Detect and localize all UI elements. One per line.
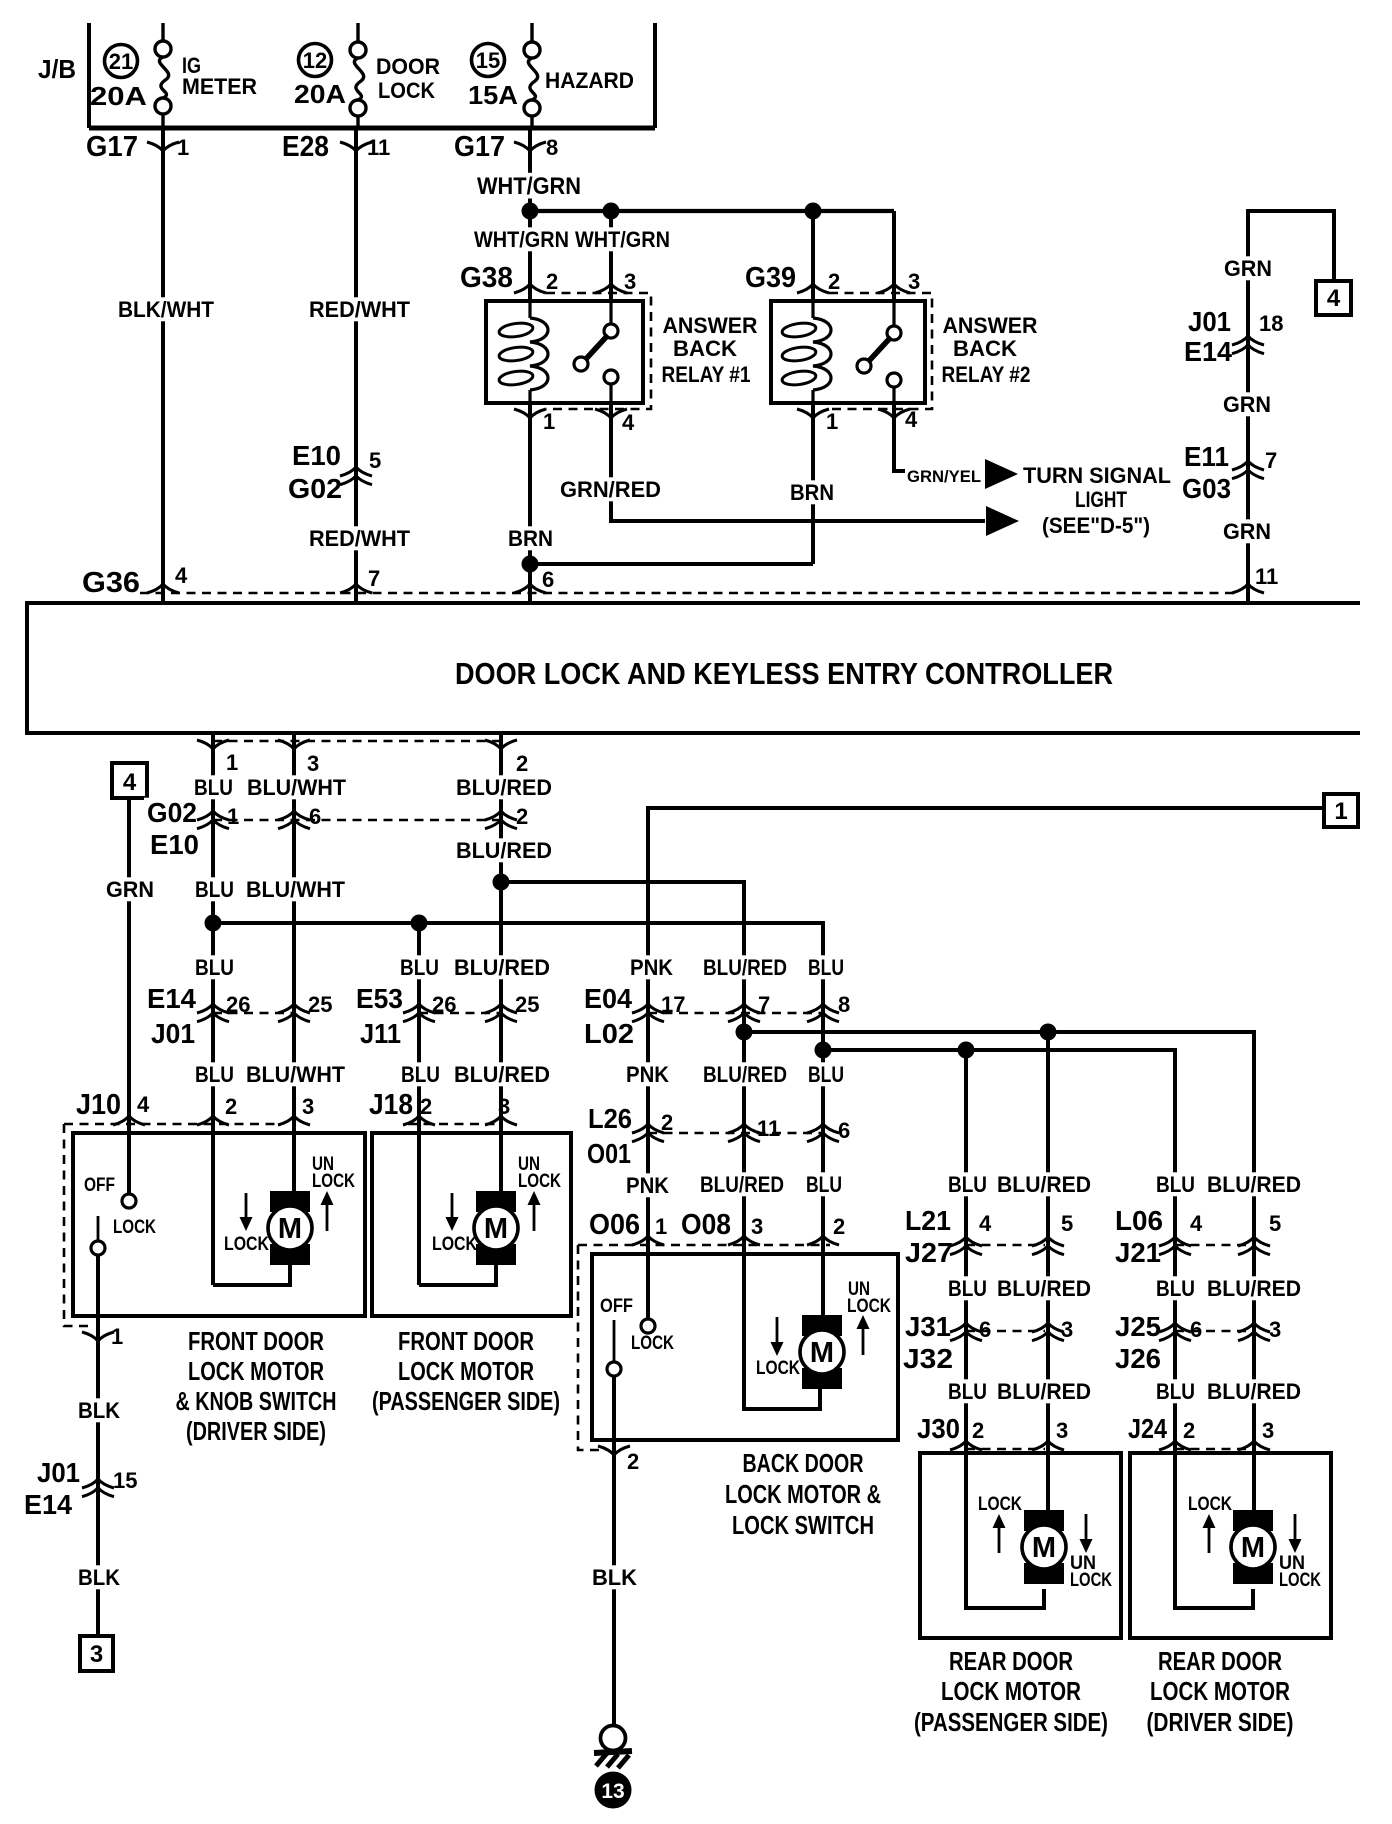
svg-text:BLK: BLK [78,1398,120,1423]
connector L06/J21 pins 4,5 [1112,1205,1281,1268]
knob switch J10 [84,1175,156,1636]
svg-text:LOCK: LOCK [1070,1570,1112,1591]
door lock and keyless entry controller [27,603,1360,733]
svg-text:J18: J18 [369,1089,413,1121]
svg-text:1: 1 [1334,798,1347,825]
svg-text:J27: J27 [905,1237,953,1268]
svg-text:E10: E10 [292,440,341,471]
code box 1 right [1324,794,1358,827]
connector J31/J32 pins 6,3 [900,1311,1073,1374]
junction dot B [603,203,620,220]
svg-text:3: 3 [498,1094,510,1119]
connector E53/J11 pins 26,25 [353,983,539,1049]
svg-text:PNK: PNK [626,1173,669,1198]
answer back relay #2 U2 [771,301,925,403]
rear door lock motor passenger box [920,1453,1121,1638]
svg-text:BLU: BLU [808,955,844,980]
svg-text:WHT/GRN: WHT/GRN [575,227,670,252]
ground id circle 13 [595,1772,632,1809]
svg-text:LOCK: LOCK [1188,1494,1232,1515]
svg-text:BLU/RED: BLU/RED [997,1379,1091,1404]
wire GRN box4 to J10-4 [103,798,157,1201]
svg-text:BLU/RED: BLU/RED [1207,1172,1301,1197]
back door lock motor [744,1254,844,1409]
svg-text:LOCK: LOCK [312,1171,355,1192]
svg-text:BLK: BLK [78,1565,120,1590]
svg-text:3: 3 [302,1094,314,1119]
junction dot C [805,203,822,220]
svg-text:GRN: GRN [1224,256,1272,281]
svg-text:BRN: BRN [790,480,834,505]
svg-text:G02: G02 [147,797,197,828]
junction dot rear blu b [958,1042,975,1059]
svg-text:LOCK MOTOR: LOCK MOTOR [398,1356,534,1386]
svg-text:LOCK: LOCK [224,1234,269,1255]
svg-text:7: 7 [758,992,770,1017]
connector L26/O01 pins 2,11,6 [584,1103,850,1169]
relay G39 connector pins 2,3 [745,262,920,294]
svg-text:BLU/RED: BLU/RED [997,1276,1091,1301]
svg-text:J26: J26 [1115,1343,1161,1374]
svg-text:1: 1 [111,1324,123,1349]
svg-text:E14: E14 [1184,336,1232,367]
svg-text:REAR DOOR: REAR DOOR [949,1646,1073,1676]
svg-text:BLU: BLU [948,1172,987,1197]
connector J18 pins 2,3 [369,1089,517,1125]
svg-text:1: 1 [177,135,189,160]
rear door driver motor [1175,1453,1275,1608]
svg-text:E04: E04 [584,983,632,1014]
svg-text:ANSWER: ANSWER [663,313,758,338]
caption rear door passenger [914,1646,1108,1737]
svg-text:3: 3 [1262,1418,1274,1443]
svg-text:8: 8 [838,992,850,1017]
wire BRN from G39-1 [787,403,837,564]
svg-text:26: 26 [226,992,250,1017]
svg-text:RELAY #2: RELAY #2 [942,362,1031,387]
wire WHT/GRN to G38-3 [572,211,673,301]
svg-text:BLU: BLU [195,1062,234,1087]
svg-text:BLU/RED: BLU/RED [700,1172,784,1197]
svg-text:L02: L02 [584,1018,634,1049]
wire BLU bus to L02-8 [213,923,847,1254]
wire BRN G38-1 to G36-6 [505,403,556,601]
svg-text:2: 2 [546,269,558,294]
svg-text:5: 5 [369,448,381,473]
svg-text:LOCK MOTOR &: LOCK MOTOR & [725,1479,881,1509]
svg-text:BLK/WHT: BLK/WHT [118,297,215,322]
svg-text:E14: E14 [147,983,196,1014]
svg-text:BLU: BLU [808,1062,844,1087]
svg-text:& KNOB SWITCH: & KNOB SWITCH [176,1386,337,1416]
caption rear door driver [1147,1646,1294,1737]
wire BLU controller-1 [191,733,237,1285]
wire BLU/RED controller-2 [451,733,555,1192]
svg-text:25: 25 [515,992,539,1017]
svg-text:11: 11 [757,1116,780,1141]
svg-text:L06: L06 [1115,1205,1163,1236]
svg-text:BRN: BRN [508,526,553,551]
svg-text:BACK DOOR: BACK DOOR [743,1448,864,1478]
svg-text:FRONT DOOR: FRONT DOOR [398,1326,534,1356]
svg-text:1: 1 [655,1214,667,1239]
caption front door lock motor driver [176,1326,337,1446]
svg-text:4: 4 [979,1211,992,1236]
svg-text:6: 6 [542,567,554,592]
svg-text:WHT/GRN: WHT/GRN [474,227,569,252]
connector E14/J01 pins 26,25 [144,983,332,1049]
svg-text:LOCK: LOCK [518,1171,561,1192]
svg-text:4: 4 [123,769,137,796]
svg-text:18: 18 [1259,311,1283,336]
svg-text:3: 3 [1061,1317,1073,1342]
svg-text:M: M [1032,1532,1056,1564]
caption back door lock motor [725,1448,881,1540]
svg-text:LOCK: LOCK [631,1333,674,1354]
relay G39 dashed outline [829,293,932,409]
wire BLK J10-1 [75,1398,123,1590]
svg-text:1: 1 [543,409,555,434]
code box 4 top right [1316,281,1351,315]
connector J24 pins 2,3 [1125,1413,1274,1450]
label TURN SIGNAL LIGHT [1023,463,1171,538]
svg-text:BLU: BLU [948,1276,987,1301]
connector G36 pins [82,563,1278,599]
svg-text:LOCK MOTOR: LOCK MOTOR [188,1356,324,1386]
unlock arrow rear passenger [1070,1514,1112,1591]
connector J10 pin 1 [82,1324,123,1349]
svg-text:3: 3 [624,269,636,294]
svg-text:(SEE"D-5"): (SEE"D-5") [1042,513,1150,538]
svg-text:J21: J21 [1115,1237,1161,1268]
label GRN/YEL [907,467,981,486]
front door lock motor passenger [419,1191,518,1285]
answer back relay #1 U1 [486,301,643,403]
connector E28 pin 11 [282,131,390,163]
svg-text:8: 8 [546,135,558,160]
svg-text:J01: J01 [1188,306,1231,337]
svg-text:2: 2 [516,804,528,829]
svg-text:BACK: BACK [673,336,737,361]
wire GRN loop to code box 4 [1248,211,1334,601]
svg-text:BLU/RED: BLU/RED [454,955,550,980]
svg-text:RED/WHT: RED/WHT [309,526,411,551]
svg-text:2: 2 [627,1449,639,1474]
WHT/GRN bus line [530,211,894,301]
svg-text:GRN: GRN [1223,519,1271,544]
svg-text:J10: J10 [76,1089,121,1121]
svg-text:BLU/WHT: BLU/WHT [246,877,346,902]
svg-text:LOCK MOTOR: LOCK MOTOR [1150,1676,1290,1706]
svg-text:25: 25 [308,992,332,1017]
svg-text:2: 2 [661,1110,673,1135]
svg-text:L26: L26 [588,1103,632,1134]
svg-text:J/B: J/B [38,54,76,84]
svg-text:J31: J31 [905,1311,951,1342]
wire BLU/RED branch to L02-7 [501,882,790,1254]
wire WHT/GRN from G17-8 [474,128,584,211]
svg-text:BLU/RED: BLU/RED [1207,1276,1301,1301]
svg-text:LOCK SWITCH: LOCK SWITCH [732,1510,874,1540]
svg-text:BLU: BLU [195,877,234,902]
connector J10 pins 4,2,3 [64,1089,314,1326]
connector back door pin 2 [598,1446,639,1474]
svg-text:20A: 20A [294,79,346,109]
connector E10/G02 pin 5 [285,440,381,504]
svg-text:1: 1 [227,804,239,829]
relay G38 dashed outline [546,293,651,409]
lock arrow rear driver [1188,1494,1232,1553]
svg-text:17: 17 [661,992,685,1017]
junction dot BRN [522,556,539,573]
connector G17 pin 1 [86,131,189,163]
rear door lock motor driver box [1130,1453,1331,1638]
svg-text:BLU: BLU [195,955,234,980]
svg-text:BLU: BLU [1156,1276,1195,1301]
wire BLK back door to ground [589,1565,640,1590]
wire GRN/YEL G39-4 [894,403,905,471]
connector G17 pin 8 [454,131,558,163]
svg-text:RED/WHT: RED/WHT [309,297,411,322]
svg-text:M: M [278,1213,302,1245]
fuse 21 20A IG METER [90,23,257,128]
wire BLU/RED bus to rear doors [744,1032,1254,1453]
svg-text:BLK: BLK [592,1565,637,1590]
lock arrow back door [756,1317,800,1379]
svg-text:4: 4 [1190,1211,1203,1236]
svg-text:2: 2 [225,1094,237,1119]
svg-text:26: 26 [432,992,456,1017]
svg-text:M: M [1241,1532,1265,1564]
svg-text:5: 5 [1061,1211,1073,1236]
svg-text:LOCK: LOCK [113,1217,156,1238]
svg-text:(DRIVER SIDE): (DRIVER SIDE) [186,1416,326,1446]
svg-text:O08: O08 [681,1209,731,1241]
svg-text:4: 4 [1327,285,1341,312]
wire BLK/WHT from G17-1 to G36-4 [115,128,217,601]
svg-text:LOCK: LOCK [756,1358,800,1379]
svg-text:6: 6 [1190,1317,1202,1342]
svg-text:BLU: BLU [1156,1379,1195,1404]
lock arrow J10 [224,1193,269,1255]
svg-text:WHT/GRN: WHT/GRN [477,173,581,200]
svg-text:E10: E10 [150,829,199,860]
turn signal arrow 1 [985,459,1018,489]
svg-text:6: 6 [979,1317,991,1342]
svg-text:3: 3 [751,1214,763,1239]
svg-text:G39: G39 [745,262,796,294]
svg-text:21: 21 [109,49,133,74]
relay G38 connector pins 2,3 [460,262,636,294]
svg-text:2: 2 [420,1094,432,1119]
svg-text:BLU: BLU [806,1172,842,1197]
svg-text:BLU: BLU [400,955,439,980]
connector J01/E14 pin 18 [1181,306,1283,367]
wire RED/WHT from E28-11 to G36-7 [306,128,413,601]
rear door passenger motor [966,1453,1066,1608]
wire BLU/WHT controller-3 [243,733,349,1192]
turn signal arrow 2 [986,506,1019,536]
svg-text:PNK: PNK [626,1062,669,1087]
svg-text:5: 5 [1269,1211,1281,1236]
front door lock motor driver [213,1191,312,1285]
svg-text:BACK: BACK [953,336,1017,361]
unlock arrow rear driver [1279,1514,1321,1591]
svg-text:E14: E14 [24,1489,72,1520]
svg-text:BLU/RED: BLU/RED [997,1172,1091,1197]
svg-text:11: 11 [1255,564,1278,589]
svg-text:O01: O01 [587,1138,631,1169]
svg-text:J30: J30 [917,1413,960,1444]
unlock arrow J18 [518,1154,561,1231]
svg-text:3: 3 [1056,1418,1068,1443]
svg-text:G17: G17 [86,131,138,163]
svg-text:HAZARD: HAZARD [545,68,634,93]
svg-text:3: 3 [1269,1317,1281,1342]
relay G39 pins 1,4 [797,407,918,434]
connector L21/J27 pins 4,5 [902,1205,1073,1268]
svg-text:BLU/WHT: BLU/WHT [247,775,347,800]
unlock arrow back door [847,1279,891,1355]
svg-text:TURN SIGNAL: TURN SIGNAL [1023,463,1171,488]
svg-text:2: 2 [972,1418,984,1443]
svg-text:6: 6 [309,804,321,829]
back door lock motor & lock switch box [592,1254,898,1440]
svg-text:LIGHT: LIGHT [1075,487,1127,512]
code box 3 bottom left [80,1636,113,1671]
svg-text:LOCK: LOCK [847,1296,891,1317]
svg-text:E28: E28 [282,131,329,163]
connector O06 pin 1 and O08 pins 3,2 [578,1209,845,1450]
svg-text:DOOR LOCK AND KEYLESS ENTRY CO: DOOR LOCK AND KEYLESS ENTRY CONTROLLER [455,656,1113,691]
svg-text:3: 3 [908,269,920,294]
svg-text:O06: O06 [589,1209,640,1241]
junction dot BLU/RED [493,874,510,891]
svg-text:BLU/WHT: BLU/WHT [246,1062,346,1087]
svg-text:BLU/RED: BLU/RED [1207,1379,1301,1404]
svg-text:BLU/RED: BLU/RED [456,775,552,800]
svg-text:DOOR: DOOR [376,54,440,79]
svg-text:1: 1 [226,750,238,775]
svg-text:12: 12 [303,48,327,73]
lock arrow J18 [432,1193,477,1255]
lock arrow rear passenger [978,1494,1022,1553]
svg-text:4: 4 [137,1092,150,1117]
front door lock motor passenger side box [372,1133,571,1316]
unlock arrow J10 [312,1154,355,1231]
relay G39 label [942,313,1038,387]
svg-text:4: 4 [622,410,635,435]
wire BLU to rear passenger [964,1050,968,1453]
wire BRN bus [530,562,813,566]
wire BLU/RED to rear passenger [1046,1032,1050,1453]
relay G38 pins 1,4 [514,409,635,435]
svg-text:G02: G02 [288,473,342,504]
junction dot rear blu [815,1042,832,1059]
svg-text:2: 2 [833,1214,845,1239]
svg-text:ANSWER: ANSWER [943,313,1038,338]
connector J01/E14 pin 15 [21,1457,137,1520]
svg-text:7: 7 [368,566,380,591]
connector J25/J26 pins 6,3 [1112,1311,1281,1374]
svg-text:11: 11 [367,135,390,160]
junction dot BLU b [411,915,428,932]
svg-text:GRN/RED: GRN/RED [560,477,661,502]
svg-text:GRN: GRN [106,877,154,902]
ground 13 [594,1726,632,1769]
svg-text:M: M [484,1213,508,1245]
svg-text:BLU: BLU [948,1379,987,1404]
wire PNK from box 1 [623,808,1324,1326]
svg-text:E11: E11 [1184,441,1229,472]
svg-text:15: 15 [476,48,500,73]
svg-text:M: M [810,1337,834,1369]
svg-text:BLU: BLU [401,1062,440,1087]
svg-text:7: 7 [1265,448,1277,473]
svg-text:METER: METER [182,74,257,99]
svg-text:J01: J01 [37,1457,80,1488]
svg-text:J11: J11 [360,1018,401,1049]
connector G02/E10 pins 1,6,2 [144,797,528,860]
connector E11/G03 pin 7 [1179,441,1277,504]
svg-text:J24: J24 [1128,1413,1167,1444]
svg-text:2: 2 [828,269,840,294]
svg-text:L21: L21 [905,1205,951,1236]
svg-text:BLU/RED: BLU/RED [703,955,787,980]
svg-text:BLU/RED: BLU/RED [454,1062,550,1087]
svg-text:4: 4 [905,407,918,432]
wire BLU to E53-26 [397,923,443,1285]
svg-text:J32: J32 [903,1343,953,1374]
svg-text:GRN/YEL: GRN/YEL [907,467,981,486]
fuse 15 15A HAZARD [468,23,634,128]
back door lock switch [600,1296,674,1725]
svg-text:15: 15 [113,1468,137,1493]
svg-text:BLU: BLU [194,775,233,800]
junction dot rear blu/red [736,1024,753,1041]
caption front door lock motor passenger [372,1326,560,1416]
svg-text:OFF: OFF [84,1175,115,1196]
svg-text:BLU/RED: BLU/RED [703,1062,787,1087]
controller output pins 1,3,2 [197,740,528,776]
svg-text:15A: 15A [468,80,518,110]
junction block J/B [38,23,655,128]
wire WHT/GRN to G38-2 [471,211,572,301]
svg-text:G36: G36 [82,567,140,599]
front door lock motor & knob switch driver side box [73,1133,365,1316]
svg-text:LOCK: LOCK [432,1234,477,1255]
svg-text:(PASSENGER SIDE): (PASSENGER SIDE) [914,1707,1108,1737]
wire to G39-2 [811,211,815,301]
svg-text:3: 3 [307,751,319,776]
svg-text:OFF: OFF [600,1296,633,1317]
connector J30 pins 2,3 [914,1413,1068,1450]
wire GRN/RED G38-4 [557,403,985,521]
svg-text:LOCK: LOCK [1279,1570,1321,1591]
svg-text:RELAY #1: RELAY #1 [662,362,751,387]
svg-text:BLU/RED: BLU/RED [456,838,552,863]
code box 4 left [112,763,147,798]
svg-text:(PASSENGER SIDE): (PASSENGER SIDE) [372,1386,560,1416]
svg-text:13: 13 [601,1780,624,1803]
svg-text:PNK: PNK [630,955,673,980]
svg-text:20A: 20A [90,81,147,111]
svg-text:6: 6 [838,1118,850,1143]
svg-text:E53: E53 [356,983,403,1014]
svg-text:2: 2 [516,751,528,776]
svg-text:LOCK: LOCK [978,1494,1022,1515]
wire BLU bus to rear doors [823,1050,1175,1453]
